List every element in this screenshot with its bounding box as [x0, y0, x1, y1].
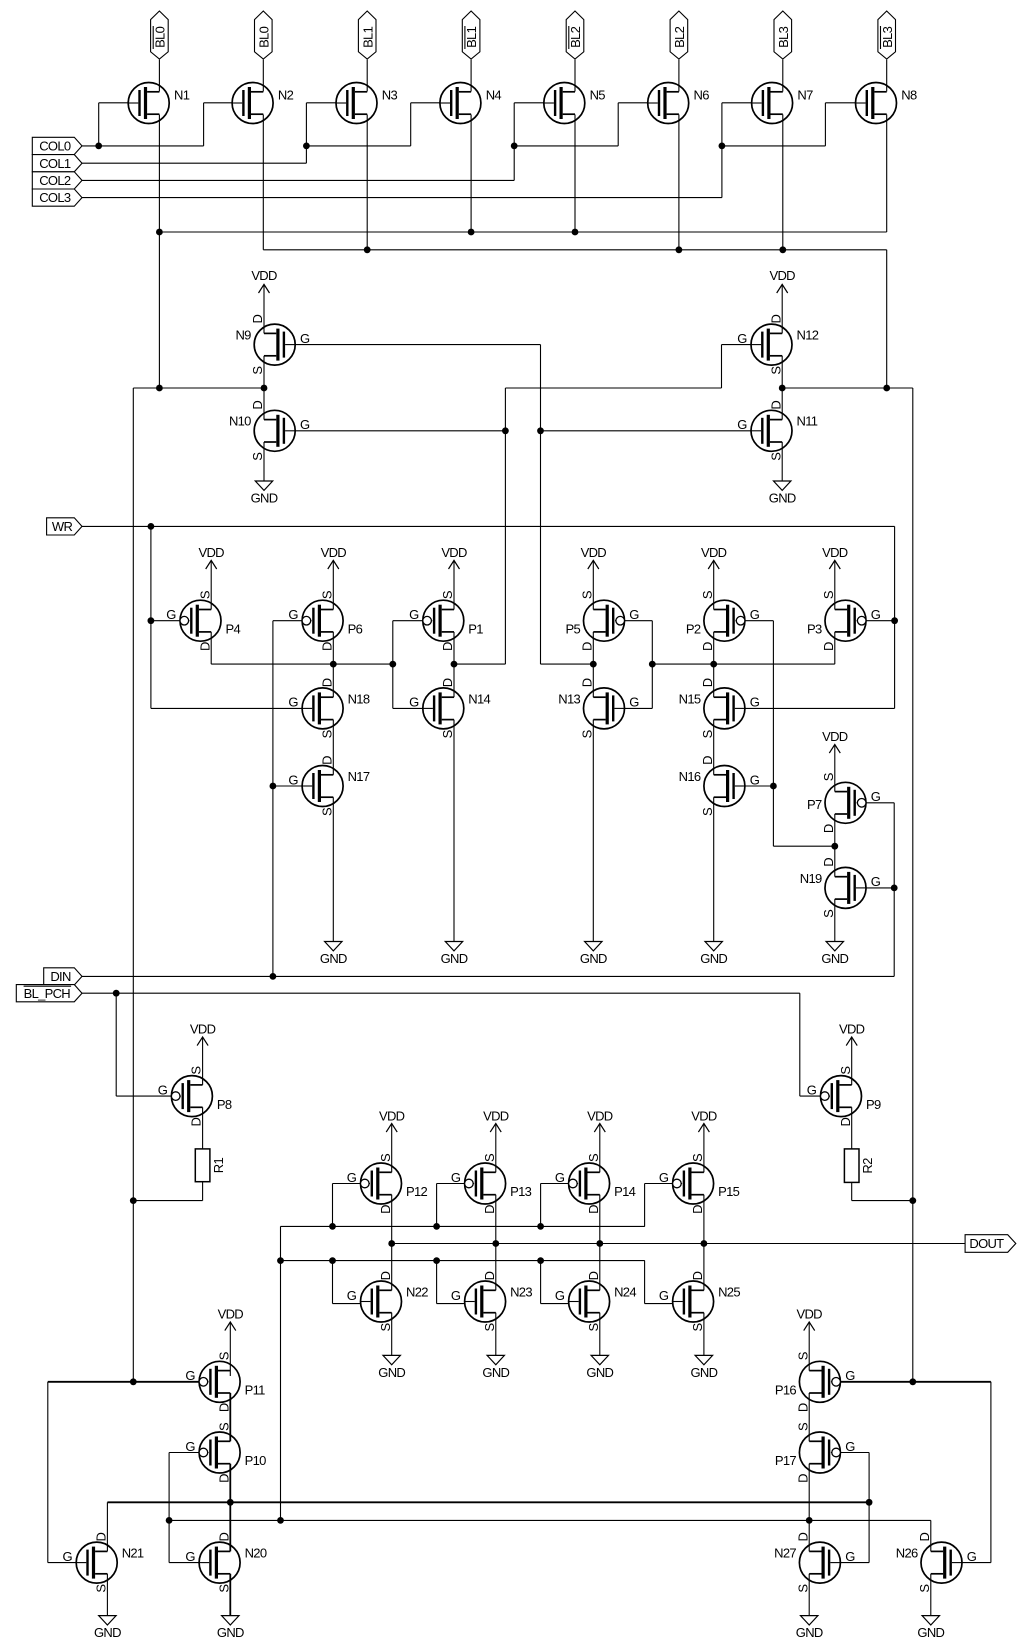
svg-text:GND: GND — [94, 1625, 121, 1640]
wire P12 drain drop — [391, 1195, 393, 1244]
wire BL_PCH right drop — [799, 993, 801, 1096]
svg-text:VDD: VDD — [701, 545, 727, 560]
port BLB3 (bitline flag) — [878, 11, 896, 59]
port BLB0 (bitline flag) — [151, 11, 169, 59]
port COL3 (input flag) — [32, 189, 82, 206]
port BL2 (bitline flag) — [670, 11, 688, 59]
wire N12 gate stub — [722, 344, 752, 346]
ground — [769, 442, 796, 505]
power VDD — [251, 268, 277, 333]
wire N27 gate stub — [840, 1562, 869, 1564]
svg-text:S: S — [216, 1584, 231, 1593]
svg-text:P1: P1 — [468, 621, 483, 636]
svg-text:D: D — [319, 642, 334, 651]
wire N6 gate riser — [617, 103, 619, 146]
junction WR branch — [148, 523, 155, 530]
junction node R N12/N11 — [779, 385, 786, 392]
transistor P10 (PMOS) — [185, 1422, 266, 1483]
wire DIN horizontal — [82, 975, 894, 977]
wire N4 gate stub — [411, 102, 441, 104]
junction gate rail C tap 1 — [329, 1257, 336, 1264]
ground — [378, 1313, 405, 1380]
transistor N25 (NMOS) — [659, 1271, 740, 1331]
wire N7 gate riser — [721, 103, 723, 198]
transistor P3 (PMOS) — [807, 590, 881, 651]
svg-text:D: D — [690, 1271, 705, 1280]
svg-text:D: D — [482, 1271, 497, 1280]
wire N7 gate stub — [722, 102, 752, 104]
wire WR horizontal — [82, 525, 895, 527]
transistor N10 (NMOS) — [229, 401, 310, 461]
wire N13 gate stub — [625, 707, 653, 709]
svg-text:G: G — [629, 607, 639, 622]
svg-text:BL0: BL0 — [153, 26, 168, 48]
wire P13 gate riser — [436, 1184, 438, 1227]
wire N1 gate stub — [99, 102, 129, 104]
svg-text:VDD: VDD — [379, 1109, 405, 1124]
svg-text:P15: P15 — [718, 1184, 740, 1199]
junction inv2out-N11 gate — [537, 427, 544, 434]
wire P6 gate stub — [273, 620, 302, 622]
svg-text:G: G — [659, 1288, 669, 1303]
power VDD — [839, 1021, 865, 1085]
svg-text:S: S — [795, 1422, 810, 1431]
transistor N24 (NMOS) — [555, 1271, 636, 1331]
svg-text:N17: N17 — [348, 769, 370, 784]
transistor N6 (NMOS) — [648, 83, 709, 124]
wire R1 to node L — [133, 1200, 202, 1202]
wire N3 gate stub — [306, 102, 336, 104]
wire P10/N20 drain column — [229, 1464, 231, 1552]
transistor N12 (NMOS) — [737, 314, 818, 374]
svg-text:D: D — [917, 1532, 932, 1541]
wire P7/N19 drain column — [834, 814, 836, 877]
svg-text:G: G — [62, 1549, 72, 1564]
transistor P12 (PMOS) — [347, 1153, 428, 1214]
svg-text:N6: N6 — [694, 88, 710, 103]
ground — [217, 1574, 244, 1640]
wire WR left drop — [150, 526, 152, 708]
wire P7-N19 gate riser — [893, 803, 895, 977]
svg-text:G: G — [555, 1170, 565, 1185]
svg-text:G: G — [409, 695, 419, 710]
svg-text:P16: P16 — [775, 1383, 797, 1398]
svg-text:S: S — [189, 1066, 204, 1075]
wire N6 gate stub — [618, 102, 648, 104]
wire N12 gate run — [505, 387, 721, 389]
wire bitline BLB1 drop — [470, 60, 472, 92]
svg-text:S: S — [250, 366, 265, 375]
ground — [94, 1574, 121, 1640]
svg-text:N13: N13 — [558, 691, 580, 706]
wire N16 gate branch drop — [772, 786, 774, 846]
svg-text:D: D — [768, 314, 783, 323]
svg-text:N10: N10 — [229, 414, 251, 429]
svg-text:DIN: DIN — [50, 969, 71, 984]
svg-text:N5: N5 — [590, 88, 606, 103]
wire P11/N21 gate drop — [47, 1382, 49, 1563]
svg-text:COL1: COL1 — [39, 156, 71, 171]
svg-text:GND: GND — [769, 490, 796, 505]
transistor P5 (PMOS) — [565, 590, 639, 651]
svg-text:D: D — [216, 1474, 231, 1483]
junction P7/N19 gate join — [891, 885, 898, 892]
wire N10 gate run — [295, 430, 505, 432]
wire P3 drain drop — [834, 632, 836, 664]
transistor P8 (PMOS) — [158, 1066, 232, 1127]
wire N3 source drop — [366, 115, 368, 250]
wire N25 gate riser — [644, 1261, 646, 1304]
ground — [917, 1574, 944, 1640]
svg-text:S: S — [768, 452, 783, 461]
power VDD — [441, 545, 467, 610]
svg-text:S: S — [700, 590, 715, 599]
wire R1 bottom drop — [202, 1182, 204, 1201]
wire bitline BLB3 drop — [886, 60, 888, 92]
junction BL_PCH branch — [113, 990, 120, 997]
transistor N8 (NMOS) — [856, 83, 917, 124]
junction SA left out to P17 gate — [866, 1499, 873, 1506]
wire P16 gate run — [840, 1381, 991, 1383]
svg-text:S: S — [378, 1322, 393, 1331]
junction WR-P3 gate — [891, 617, 898, 624]
svg-text:GND: GND — [378, 1365, 405, 1380]
transistor P9 (PMOS) — [807, 1066, 881, 1127]
power VDD — [822, 729, 848, 792]
svg-text:VDD: VDD — [218, 1307, 244, 1322]
junction node BL-N7 — [779, 246, 786, 253]
ground — [320, 797, 347, 966]
wire N16 gate branch run — [773, 845, 834, 847]
wire bitline BLB0 drop — [158, 60, 160, 92]
transistor N17 (NMOS) — [288, 756, 369, 816]
resistor R1 — [195, 1149, 226, 1182]
wire R2 bottom drop — [851, 1182, 853, 1200]
wire read gate riser — [280, 1226, 282, 1520]
wire P15 drain drop — [703, 1195, 705, 1244]
svg-text:P2: P2 — [686, 621, 701, 636]
wire BL bus — [263, 249, 886, 251]
svg-text:VDD: VDD — [587, 1109, 613, 1124]
junction rail C left tap — [277, 1257, 284, 1264]
junction node BLB-N1 — [156, 229, 163, 236]
svg-text:G: G — [807, 1082, 817, 1097]
svg-text:G: G — [288, 695, 298, 710]
transistor N20 (NMOS) — [185, 1532, 266, 1592]
svg-text:G: G — [185, 1549, 195, 1564]
wire P16-P17 column — [808, 1393, 810, 1441]
port COL0 (input flag) — [32, 137, 82, 154]
port BL1 (bitline flag) — [358, 11, 376, 59]
svg-text:N4: N4 — [486, 88, 502, 103]
ground — [796, 1574, 823, 1640]
svg-text:G: G — [555, 1288, 565, 1303]
power VDD — [822, 545, 848, 610]
transistor P1 (PMOS) — [409, 590, 483, 651]
wire P1 gate stub — [393, 620, 423, 622]
wire N14 gate stub — [393, 707, 423, 709]
wire node L horizontal — [133, 387, 264, 389]
wire N8 gate riser — [824, 103, 826, 146]
svg-text:S: S — [690, 1322, 705, 1331]
power VDD — [701, 545, 727, 610]
svg-text:N9: N9 — [235, 328, 251, 343]
junction SA right out P17/N27 — [806, 1517, 813, 1524]
svg-text:GND: GND — [580, 951, 607, 966]
wire P11 gate run — [48, 1381, 199, 1383]
svg-text:D: D — [440, 678, 455, 687]
wire bitline BL1 drop — [366, 60, 368, 92]
svg-text:DOUT: DOUT — [969, 1236, 1004, 1251]
svg-text:N26: N26 — [896, 1546, 918, 1561]
ground — [700, 797, 727, 966]
svg-text:N8: N8 — [901, 88, 917, 103]
svg-text:N1: N1 — [174, 88, 190, 103]
svg-text:G: G — [871, 874, 881, 889]
svg-text:GND: GND — [586, 1365, 613, 1380]
svg-text:G: G — [845, 1439, 855, 1454]
svg-text:BL1: BL1 — [464, 26, 479, 48]
power VDD — [321, 545, 347, 610]
svg-text:G: G — [750, 607, 760, 622]
wire P16/N26 gate drop — [990, 1382, 992, 1563]
svg-text:D: D — [440, 642, 455, 651]
transistor P6 (PMOS) — [288, 590, 362, 651]
wire P8 drain to R1 — [202, 1107, 204, 1149]
wire gate rail C — [281, 1260, 645, 1262]
svg-text:N7: N7 — [797, 88, 813, 103]
port BL_PCH (input flag) — [16, 985, 82, 1002]
svg-text:G: G — [451, 1170, 461, 1185]
wire BL_PCH to P8 gate — [116, 1095, 171, 1097]
svg-text:N25: N25 — [718, 1284, 740, 1299]
svg-text:S: S — [700, 729, 715, 738]
junction gate rail C tap 3 — [537, 1257, 544, 1264]
wire inv1 out rail — [454, 663, 505, 665]
svg-text:S: S — [795, 1584, 810, 1593]
wire N25 gate stub — [645, 1303, 673, 1305]
svg-text:G: G — [185, 1439, 195, 1454]
wire N25 drain rise — [703, 1244, 705, 1291]
wire N2 gate riser — [203, 103, 205, 146]
transistor N16 (NMOS) — [679, 756, 760, 816]
svg-text:P11: P11 — [245, 1383, 266, 1398]
svg-text:S: S — [440, 729, 455, 738]
svg-text:N23: N23 — [510, 1284, 532, 1299]
junction R2-node R — [909, 1197, 916, 1204]
ground — [821, 899, 848, 966]
svg-text:VDD: VDD — [581, 545, 607, 560]
port BLB1 (bitline flag) — [462, 11, 480, 59]
junction driver out-inv1 in — [389, 661, 396, 668]
power VDD — [483, 1109, 509, 1173]
svg-text:BL2: BL2 — [568, 26, 583, 48]
wire N17 gate stub — [273, 785, 302, 787]
wire N24 drain rise — [599, 1244, 601, 1291]
svg-text:S: S — [579, 729, 594, 738]
svg-text:GND: GND — [217, 1625, 244, 1640]
svg-text:D: D — [821, 858, 836, 867]
svg-text:VDD: VDD — [822, 729, 848, 744]
svg-text:N27: N27 — [774, 1546, 796, 1561]
svg-text:VDD: VDD — [251, 268, 277, 283]
transistor N2 (NMOS) — [232, 83, 293, 124]
port BL3 (bitline flag) — [774, 11, 792, 59]
wire N5 gate riser — [513, 103, 515, 181]
svg-text:R1: R1 — [211, 1158, 226, 1174]
junction DOUT tap 1 — [388, 1240, 395, 1247]
junction DIN branch — [270, 973, 277, 980]
wire WR to N18 gate — [151, 707, 302, 709]
junction pair2 branch junction — [303, 143, 310, 150]
junction node BL-N6 — [676, 246, 683, 253]
svg-text:G: G — [347, 1288, 357, 1303]
svg-text:VDD: VDD — [822, 545, 848, 560]
svg-text:D: D — [838, 1117, 853, 1126]
wire N4 source drop — [470, 115, 472, 233]
ground — [441, 720, 468, 966]
svg-text:BL0: BL0 — [256, 26, 271, 48]
transistor N4 (NMOS) — [440, 83, 501, 124]
transistor N22 (NMOS) — [347, 1271, 428, 1331]
svg-text:G: G — [300, 331, 310, 346]
svg-text:S: S — [378, 1153, 393, 1162]
ground — [691, 1313, 718, 1380]
svg-text:VDD: VDD — [190, 1021, 216, 1036]
wire P6/N18 drain column — [332, 632, 334, 697]
wire P3 gate stub — [866, 620, 895, 622]
wire N26 gate stub — [962, 1562, 991, 1564]
junction DOUT tap 4 — [701, 1240, 708, 1247]
wire N24 gate stub — [541, 1303, 569, 1305]
wire P12 gate riser — [332, 1184, 334, 1227]
port BLB2 (bitline flag) — [566, 11, 584, 59]
wire N1 gate riser — [98, 103, 100, 146]
port WR (input flag) — [47, 518, 82, 535]
wire N9 gate drop — [540, 345, 542, 664]
svg-text:G: G — [166, 607, 176, 622]
junction WR-P4 gate — [148, 617, 155, 624]
svg-text:S: S — [319, 590, 334, 599]
wire bitline BL3 drop — [782, 60, 784, 92]
wire P9 drain to R2 — [851, 1107, 853, 1149]
svg-text:BL3: BL3 — [776, 26, 791, 48]
svg-text:G: G — [659, 1170, 669, 1185]
svg-text:VDD: VDD — [839, 1021, 865, 1036]
transistor P4 (PMOS) — [166, 590, 240, 651]
transistor N5 (NMOS) — [544, 83, 605, 124]
svg-text:S: S — [482, 1153, 497, 1162]
svg-text:D: D — [700, 642, 715, 651]
power VDD — [797, 1307, 823, 1371]
svg-text:P7: P7 — [807, 797, 822, 812]
svg-text:P8: P8 — [217, 1097, 232, 1112]
svg-text:D: D — [586, 1205, 601, 1214]
wire node R drop — [912, 388, 914, 1382]
transistor P16 (PMOS) — [775, 1351, 855, 1412]
transistor N21 (NMOS) — [62, 1532, 143, 1592]
svg-text:S: S — [197, 590, 212, 599]
svg-text:D: D — [795, 1474, 810, 1483]
wire DIN riser — [272, 621, 274, 977]
wire N23 gate stub — [437, 1303, 465, 1305]
wire node L drop — [132, 388, 134, 1382]
svg-text:G: G — [300, 417, 310, 432]
svg-text:D: D — [579, 642, 594, 651]
wire P5 gate stub — [625, 620, 653, 622]
transistor N9 (NMOS) — [235, 314, 310, 374]
power VDD — [218, 1307, 244, 1377]
wire N21 drain rise — [106, 1502, 108, 1551]
power VDD — [691, 1109, 717, 1173]
wire WR to N15 gate — [745, 707, 895, 709]
wire COL0 horizontal — [82, 145, 204, 147]
wire P10 gate stub — [169, 1452, 199, 1454]
svg-text:BL1: BL1 — [360, 26, 375, 48]
ground — [482, 1313, 509, 1380]
resistor R2 — [844, 1149, 875, 1183]
wire N23 gate riser — [436, 1261, 438, 1304]
junction gate rail A tap 1 — [329, 1223, 336, 1230]
svg-text:S: S — [917, 1584, 932, 1593]
svg-text:S: S — [700, 807, 715, 816]
transistor N7 (NMOS) — [752, 83, 813, 124]
svg-text:D: D — [189, 1117, 204, 1126]
wire P4 drain drop — [210, 632, 212, 664]
transistor N23 (NMOS) — [451, 1271, 532, 1331]
svg-text:N12: N12 — [797, 328, 819, 343]
power VDD — [199, 545, 225, 610]
wire P1/N14 drain column — [453, 632, 455, 697]
svg-text:G: G — [737, 331, 747, 346]
wire gate rail A — [281, 1225, 645, 1227]
wire N18-N17 column — [332, 720, 334, 775]
transistor P15 (PMOS) — [659, 1153, 740, 1214]
wire P12 gate stub — [333, 1183, 361, 1185]
svg-text:GND: GND — [796, 1625, 823, 1640]
svg-text:G: G — [845, 1368, 855, 1383]
junction inv1out-N10 gate — [502, 427, 509, 434]
wire P2/N15 drain column — [713, 632, 715, 697]
svg-text:G: G — [871, 607, 881, 622]
port BL0 (bitline flag) — [255, 11, 273, 59]
svg-text:S: S — [440, 590, 455, 599]
svg-text:N21: N21 — [122, 1546, 144, 1561]
svg-text:S: S — [250, 452, 265, 461]
svg-text:D: D — [700, 678, 715, 687]
svg-text:G: G — [871, 789, 881, 804]
junction SA left out P10/N20 — [227, 1499, 234, 1506]
wire P11-P10 column — [229, 1393, 231, 1441]
svg-text:P5: P5 — [565, 621, 580, 636]
svg-text:G: G — [409, 607, 419, 622]
ground — [580, 720, 607, 966]
wire WR right drop — [894, 526, 896, 708]
svg-text:S: S — [690, 1153, 705, 1162]
wire P17/N27 drain column — [808, 1464, 810, 1552]
svg-text:S: S — [319, 729, 334, 738]
wire N6 source drop — [678, 115, 680, 250]
svg-text:VDD: VDD — [199, 545, 225, 560]
wire N4 gate riser — [410, 103, 412, 146]
svg-text:S: S — [216, 1351, 231, 1360]
svg-text:N22: N22 — [406, 1284, 428, 1299]
wire P14 gate stub — [541, 1183, 569, 1185]
svg-text:N2: N2 — [278, 88, 294, 103]
wire SA right out rail — [169, 1519, 931, 1521]
transistor P2 (PMOS) — [686, 590, 760, 651]
svg-text:GND: GND — [700, 951, 727, 966]
